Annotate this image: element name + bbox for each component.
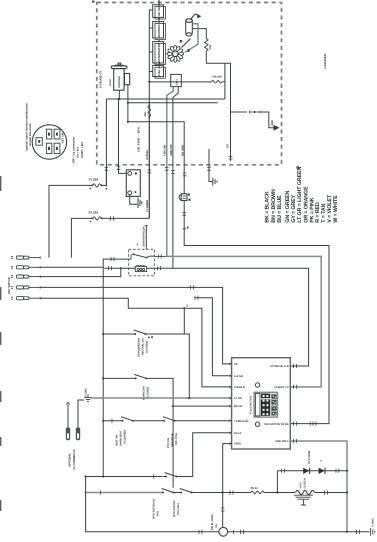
- starter solenoid cylinder: [186, 19, 193, 36]
- module mounting holes: [255, 383, 259, 387]
- solenoid engage arrow: [190, 14, 197, 20]
- bus wire 2: [128, 85, 218, 122]
- svg-text:(CLOSED): (CLOSED): [146, 387, 149, 399]
- svg-text:START = B S: START = B S: [81, 142, 84, 158]
- battery cable with arrow head: [261, 112, 277, 128]
- svg-text:NEUTRAL SW: NEUTRAL SW: [142, 338, 145, 355]
- svg-text:(CLOSED): (CLOSED): [146, 341, 149, 353]
- junction dot: [148, 81, 150, 83]
- circuit breaker squiggle vertical: [148, 106, 151, 116]
- wire: module pin LT GN row (gray): [91, 397, 232, 399]
- svg-text:AC CORD/PLUG: AC CORD/PLUG: [73, 449, 76, 470]
- svg-text:ALTERNATOR B: ALTERNATOR B: [157, 40, 161, 62]
- svg-text:GY/PNK: GY/PNK: [146, 150, 149, 160]
- AC cord wires up: [67, 405, 69, 428]
- wire: breaker to bus1: [222, 63, 225, 99]
- svg-text:RED: RED: [271, 120, 274, 126]
- svg-text:W = WHITE: W = WHITE: [333, 195, 339, 223]
- fuse box (small): [171, 74, 182, 86]
- svg-text:2: 2: [320, 460, 322, 463]
- module pin labels (left): [234, 363, 249, 446]
- wire: key row2 to relay and main bus: [40, 259, 129, 267]
- wire: bus2 down to battery +: [119, 99, 127, 173]
- svg-text:2: 2: [137, 243, 139, 247]
- svg-text:5: 5: [186, 304, 188, 308]
- svg-text:(SHOWN IN: (SHOWN IN: [171, 433, 174, 447]
- main accessory bus (vertical): [102, 267, 104, 477]
- svg-text:On = B A: On = B A: [77, 147, 80, 158]
- svg-text:S AGN B: S AGN B: [234, 386, 245, 389]
- svg-text:5 B/C BK: 5 B/C BK: [164, 144, 167, 156]
- inline connector on outer loop wire: [310, 422, 316, 426]
- wire: stub row to module pin S A GN: [195, 298, 232, 376]
- svg-text:IGNITION COIL: IGNITION COIL: [157, 17, 161, 38]
- svg-text:OIL SENSOR: OIL SENSOR: [157, 0, 161, 16]
- svg-text:P CLG MCTR B: P CLG MCTR B: [249, 396, 252, 414]
- wire: relay coil output to inner loop: [147, 268, 309, 366]
- svg-text:V = VIOLET: V = VIOLET: [327, 194, 333, 223]
- svg-text:20A: 20A: [209, 45, 212, 50]
- seat switch row (double switch): [102, 420, 104, 422]
- legend: wire colour code: [265, 167, 339, 223]
- wire pair from fuse box down (gray+dark): [167, 87, 173, 257]
- relay contact: [129, 254, 131, 259]
- wire: key row3 up to relay coil: [40, 268, 121, 276]
- svg-text:KEY SW: KEY SW: [62, 132, 65, 143]
- component box: ignition coils: [153, 22, 166, 40]
- wire stubs to boxes: [149, 10, 152, 72]
- svg-text:C/B 2: C/B 2: [175, 79, 178, 86]
- diode D2: [319, 468, 325, 474]
- svg-text:TERA: TERA: [234, 443, 241, 446]
- svg-text:OPTIONAL: OPTIONAL: [68, 453, 71, 467]
- svg-text:STARTER: STARTER: [118, 76, 121, 88]
- svg-text:OCCUPIED): OCCUPIED): [123, 430, 126, 444]
- svg-text:STARTER RELAY: STARTER RELAY: [143, 226, 146, 247]
- wire: solenoid to fuse: [192, 29, 206, 39]
- svg-text:PN 24: PN 24: [251, 487, 259, 490]
- svg-text:DCLA: DCLA: [234, 432, 241, 435]
- wire: module TERA pin down to battery terminal post: [223, 444, 232, 528]
- svg-text:F1 20A: F1 20A: [89, 177, 100, 181]
- svg-text:6 GAUGE GY: 6 GAUGE GY: [99, 70, 103, 88]
- connector pins on module right stubs: [294, 364, 297, 368]
- ground (battery): [130, 195, 138, 205]
- svg-text:E GND: E GND: [371, 518, 374, 526]
- svg-text:TRANSMISSION: TRANSMISSION: [138, 338, 141, 357]
- relay feed wire from above: [145, 226, 147, 250]
- svg-text:ATTND GB G B: ATTND GB G B: [270, 365, 289, 368]
- svg-text:S A GN: S A GN: [234, 375, 243, 378]
- wire: left harness wire to top component boxes: [148, 10, 150, 219]
- fuse 20A (vertical zigzag): [205, 39, 209, 52]
- wire: down to indicator lamp: [128, 122, 184, 194]
- svg-text:OFF = no connection: OFF = no connection: [72, 136, 75, 163]
- ground (frame, right): [371, 528, 375, 536]
- page registration mark (top left of engine box): [92, 1, 95, 3]
- ignition switch terminal face: [32, 125, 66, 159]
- stator (flywheel alternator): [167, 45, 184, 62]
- brake switch: [102, 377, 104, 379]
- component box: alternator: [153, 42, 166, 65]
- wire: module ground output (gray) to right trunk: [290, 441, 347, 532]
- svg-text:WS ORD: WS ORD: [181, 145, 184, 156]
- svg-text:CLUTCH: CLUTCH: [304, 478, 307, 488]
- svg-text:C/B 25A: C/B 25A: [212, 76, 222, 79]
- wire: F1 left lead down to key row1: [49, 185, 92, 257]
- fuse F2: [93, 217, 101, 220]
- svg-text:PTO SW: PTO SW: [167, 438, 170, 448]
- bus wire 1: [106, 98, 224, 100]
- svg-text:P/N EL 10000: P/N EL 10000: [211, 514, 214, 530]
- svg-text:BN = BROWN: BN = BROWN: [271, 189, 277, 223]
- indicator lamp: [179, 194, 185, 200]
- bulkhead connector pins at dashed line: [105, 167, 211, 176]
- wire: key row5 jog down to pin row: [40, 298, 231, 387]
- wire: brake circuit to module pin: [173, 405, 232, 407]
- component box: fuel pump: [153, 65, 166, 78]
- circuit breaker wire (gray) from harness: [150, 81, 212, 83]
- svg-text:C/B PWR — B/W: C/B PWR — B/W: [137, 127, 141, 152]
- svg-text:GO: GO: [215, 524, 218, 528]
- svg-text:KEY SWITCH: KEY SWITCH: [8, 277, 11, 294]
- wire: relay output to middle loop (gray): [154, 255, 166, 257]
- wire: F1 right lead up: [101, 165, 106, 185]
- wire: stub down to chassis ground: [209, 149, 213, 182]
- svg-text:BU = BLUE: BU = BLUE: [277, 195, 283, 223]
- svg-text:16 GA: 16 GA: [109, 79, 112, 86]
- relay coil: [135, 265, 146, 271]
- diode branch wire: [277, 470, 347, 472]
- svg-text:F2 20A: F2 20A: [89, 210, 100, 214]
- svg-text:BN GN: BN GN: [234, 405, 242, 408]
- svg-text:TB: TB: [234, 363, 238, 366]
- svg-text:T FIELD GN: T FIELD GN: [234, 420, 249, 423]
- harness wire down through CB to F2 (left vertical): [148, 103, 150, 106]
- wire: F2 right lead to harness: [102, 217, 150, 219]
- wire: relay coil feed: [104, 267, 135, 269]
- inline connector on B+ cable: [250, 111, 261, 114]
- wire: bus1 down to F1: [105, 99, 107, 186]
- svg-text:OSC MOTOS TB RA: OSC MOTOS TB RA: [264, 423, 289, 426]
- svg-text:E GND: E GND: [85, 388, 88, 396]
- wire: branch over to battery cable arrow B+: [231, 111, 248, 113]
- svg-text:CLBH GY N: CLBH GY N: [274, 386, 288, 389]
- bottom bus to frame ground: [347, 531, 370, 533]
- stator lead (dark): [182, 39, 191, 48]
- svg-text:viewed from back: viewed from back: [29, 123, 32, 146]
- svg-text:PTO: PTO: [300, 482, 303, 487]
- starter relay (dashed box): [129, 249, 155, 275]
- svg-text:(OPEN SEAT: (OPEN SEAT: [119, 430, 122, 446]
- AC cord plug prongs: [66, 427, 70, 440]
- module connector block: [254, 392, 277, 417]
- PTO clutch switch row B (gray feed): [86, 492, 162, 494]
- svg-text:GND OR G: GND OR G: [275, 440, 288, 443]
- svg-text:(PTO SWITCH N): (PTO SWITCH N): [153, 499, 156, 519]
- svg-text:FUEL PUMP: FUEL PUMP: [158, 61, 161, 76]
- svg-text:BK = BLACK: BK = BLACK: [265, 191, 271, 223]
- svg-text:20A: 20A: [144, 112, 147, 117]
- battery terminal post (circle) on bottom bus: [219, 527, 228, 536]
- wire: bus branch down to neutral switch row: [183, 308, 185, 334]
- svg-text:(PTO SWITCH: (PTO SWITCH: [173, 500, 176, 517]
- component box: oil sensor: [153, 5, 166, 19]
- wire: starter down to bus: [118, 90, 120, 99]
- wire: fuse down and right to B+ drop: [206, 51, 230, 161]
- svg-text:LT GR = LIGHT GREEN: LT GR = LIGHT GREEN: [297, 167, 303, 223]
- svg-text:GN = GREEN: GN = GREEN: [285, 191, 291, 223]
- svg-text:LT GN/BN: LT GN/BN: [146, 200, 149, 212]
- transmission neutral switch: [102, 333, 104, 335]
- connector pin on GY wire end: [229, 157, 233, 160]
- stator lead (gray) to solenoid: [185, 24, 198, 53]
- svg-text:GY = GREY: GY = GREY: [291, 194, 297, 222]
- svg-text:TN 5 GNDE: TN 5 GNDE: [308, 450, 311, 464]
- module pin labels (right): [264, 365, 289, 443]
- diode D1: [303, 468, 309, 474]
- key switch harness connectors (5 terminals): [11, 256, 40, 300]
- circuit breaker squiggle: [212, 81, 222, 84]
- wire: F2 left lead down to key row1: [71, 218, 92, 257]
- svg-text:LT GN: LT GN: [234, 397, 242, 400]
- wire: lamp down to harness row: [184, 201, 329, 424]
- wire: key row4 to module pin TB: [40, 287, 231, 364]
- resistor PN (inline zigzag): [251, 491, 265, 494]
- PTO clutch coil: [296, 490, 315, 494]
- svg-text:PTO: PTO: [157, 511, 160, 516]
- ground (engine): [213, 178, 217, 186]
- interlock module box: [232, 358, 291, 449]
- svg-text:OFF POS): OFF POS): [175, 433, 178, 445]
- scanner edge artifacts: [0, 176, 2, 511]
- page registration mark (right of engine box bottom): [296, 166, 299, 169]
- fuse F1: [93, 184, 101, 187]
- battery box: [126, 170, 140, 197]
- svg-text:SEAT SW: SEAT SW: [115, 434, 118, 446]
- starter motor cylinder: [111, 63, 129, 90]
- svg-text:PTO-OFF): PTO-OFF): [177, 503, 180, 515]
- engine compartment dashed boundary box: [97, 3, 282, 165]
- wire: left bus drop to bottom: [86, 477, 219, 532]
- svg-text:GY: GY: [226, 144, 230, 148]
- svg-text:AND A/W: AND A/W: [170, 144, 173, 156]
- PTO switch row A: [86, 476, 163, 478]
- svg-text:4 GAUGE R: 4 GAUGE R: [323, 54, 327, 69]
